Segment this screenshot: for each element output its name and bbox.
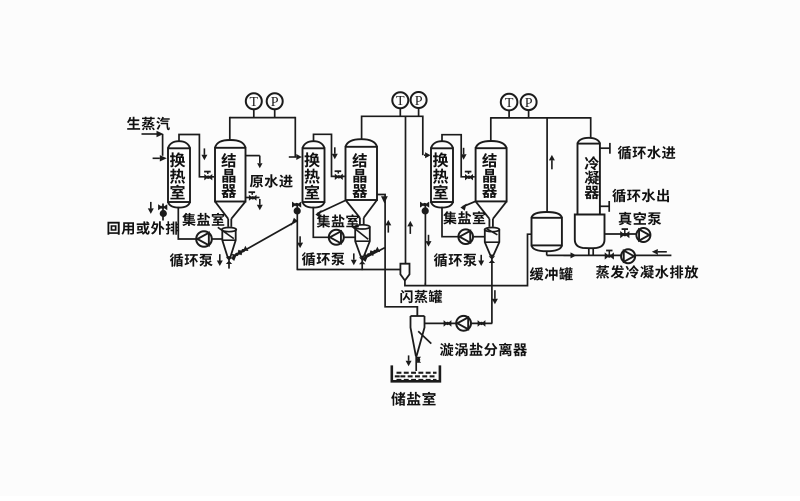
down arrow beside heater2 feed pipe <box>332 147 338 159</box>
label 蒸发冷凝水排放 <box>596 265 698 279</box>
label 循环水出 <box>612 189 669 203</box>
down arrow on pot3 drain lower <box>492 290 498 304</box>
label 集盐室 3 <box>443 211 485 224</box>
up arrow on crystallizer2 drain <box>385 220 391 233</box>
wire manifold2 to crystallizer2 top <box>361 116 363 141</box>
separator outlet to salt tank <box>415 356 417 371</box>
heater E3 换热室 <box>431 141 453 207</box>
crystallizer C1 结晶器 <box>215 140 246 227</box>
down arrow below crystallizer1 outlet <box>257 199 263 210</box>
gauge P3 stub <box>528 110 530 118</box>
gate valve on discharge line <box>605 251 614 260</box>
separator pump suction line <box>425 322 493 324</box>
label 缓冲罐 <box>530 267 573 280</box>
valve on crystallizer2 inlet <box>335 171 343 180</box>
label 闪蒸罐 <box>400 290 442 303</box>
wire manifold1 to crystallizer1 top <box>229 117 231 142</box>
gauge P1 stub <box>274 109 276 117</box>
gauge T1 stub <box>253 109 255 117</box>
pump3 discharge to salt pot3 <box>473 236 485 238</box>
heater3 top pipe <box>442 135 475 177</box>
svg-text:T: T <box>505 96 514 111</box>
wire manifold2 down to heater3 <box>422 116 424 156</box>
wire manifold1 down to heater2 <box>294 117 296 157</box>
valve b on transfer diagonal 1 <box>238 246 249 256</box>
crystallizer2 right outlet pipe <box>377 195 417 317</box>
circulation pump 循环泵 2 <box>329 230 344 245</box>
down arrow on heater3 blowdown <box>426 235 432 247</box>
ball valve on blowdown 回用或外排 <box>158 204 167 217</box>
label 循环泵 1 <box>170 253 213 267</box>
valve under salt pot1 <box>226 257 232 269</box>
gauge T3 stub <box>508 110 510 118</box>
salt pot E1 集盐室 <box>218 227 237 257</box>
svg-text:T: T <box>250 95 259 110</box>
crystallizer C2 结晶器 <box>346 139 378 226</box>
salt storage tank 储盐室 <box>392 365 440 381</box>
pump2 discharge to salt pot2 <box>344 236 355 238</box>
crystallizer1 side outlet <box>246 197 260 199</box>
gauge P2 stub <box>418 108 420 116</box>
effect2 bottom recirculation line <box>297 269 400 271</box>
down arrow into salt tank <box>406 355 412 366</box>
valve under salt pot3 <box>489 256 495 263</box>
valve on crystallizer1 side outlet <box>249 192 257 201</box>
temperature gauge T3 <box>501 94 518 111</box>
label 回用或外排 <box>108 221 180 235</box>
vacuum pump 真空泵 <box>636 228 650 242</box>
transfer diagonal effect1 to effect2 drain <box>231 218 297 261</box>
vapor manifold 3 header <box>491 117 591 119</box>
flash tank bottom line to buffer <box>405 234 532 285</box>
label 原水进 <box>250 174 293 187</box>
heater1 bottom drop to pump1 <box>178 207 196 239</box>
valve on crystallizer3 inlet <box>465 172 473 181</box>
ball valve on heater3 blowdown <box>420 202 429 215</box>
label 循环泵 2 <box>302 252 345 266</box>
valve at separator outlet <box>416 357 421 363</box>
condensate discharge pump <box>621 249 635 263</box>
svg-text:P: P <box>271 95 279 110</box>
ball valve on heater2 blowdown <box>292 202 301 215</box>
heater2 blowdown pipe <box>296 203 298 270</box>
vapor manifold 1 header <box>230 117 295 119</box>
left arrow above discharge line end <box>652 249 667 255</box>
separator feed drop <box>416 306 418 317</box>
up arrow on buffer tank feed <box>549 155 555 169</box>
pointer diagonal crystallizer3 cone <box>460 201 475 210</box>
label 集盐室 2 <box>317 214 359 227</box>
gate valve on vacuum line <box>620 229 629 238</box>
buffer tank 缓冲罐 <box>532 212 562 251</box>
valve left of separator pump <box>444 320 452 327</box>
wire manifold3 to condenser top <box>590 117 592 138</box>
wire manifold3 to crystallizer3 top <box>490 117 492 141</box>
heater1 top pipe <box>179 135 214 177</box>
down arrow left of pot1 drain <box>217 254 223 266</box>
vapor manifold 2 header <box>362 115 423 117</box>
down arrow beside heater3 feed pipe <box>461 148 467 160</box>
valve under salt pot2 <box>359 257 365 271</box>
vacuum line <box>605 233 637 235</box>
condenser bottom outlet <box>589 248 593 255</box>
heater E1 换热室 <box>168 141 190 207</box>
svg-text:T: T <box>396 94 405 109</box>
svg-text:P: P <box>415 94 423 109</box>
valve a on transfer diagonal 2 <box>363 250 374 260</box>
heater E2 换热室 <box>303 141 325 207</box>
steam arrow into heater3 <box>424 152 431 158</box>
gauge T2 stub <box>399 108 401 116</box>
heater2 bottom drop to pump2 <box>313 207 329 238</box>
junction stub on flash line <box>424 283 426 286</box>
cooling water outlet stub <box>600 201 609 212</box>
temperature gauge T1 <box>246 93 262 110</box>
label 储盐室 <box>391 392 435 406</box>
heater3 blowdown pipe <box>424 203 426 285</box>
steam arrow into heater1 <box>153 155 167 161</box>
salt pot E3 集盐室 <box>485 228 500 256</box>
circulation pump 循环泵 3 <box>458 229 473 244</box>
label 循环泵 3 <box>434 253 477 267</box>
circulation pump 循环泵 1 <box>196 231 212 247</box>
steam arrow into heater2 <box>289 154 302 160</box>
right arrow on discharge line <box>564 252 577 258</box>
label 漩涡盐分离器 <box>440 343 527 357</box>
label 循环水进 <box>618 146 676 160</box>
valve right of separator pump <box>478 320 486 327</box>
condenser lower shell <box>575 215 605 249</box>
salt pot3 drain to separator pump line <box>491 255 493 323</box>
steam inlet pipe upper <box>142 131 164 137</box>
valve a on transfer diagonal 1 <box>232 250 243 260</box>
flash tank 闪蒸罐 <box>400 264 409 281</box>
label 真空泵 <box>619 212 662 225</box>
cooling water inlet stub <box>600 143 610 154</box>
temperature gauge T2 <box>392 92 408 109</box>
valve b on transfer diagonal 2 <box>370 247 381 257</box>
valve on crystallizer1 inlet <box>204 172 212 181</box>
raw water inlet pipe 原水进 <box>246 156 263 169</box>
pointer diagonal crystallizer2 cone <box>315 201 345 218</box>
wire manifold3 down to buffer tank <box>546 117 548 212</box>
buffer tank bottom outlet <box>546 251 548 255</box>
label 生蒸汽 <box>127 117 170 131</box>
pump1 discharge to salt pot <box>212 238 223 240</box>
pressure gauge P2 <box>411 92 427 109</box>
condensate discharge line <box>547 254 672 256</box>
heater3 bottom drop to pump3 <box>442 207 458 237</box>
wire manifold2 down to flash tank <box>405 116 407 264</box>
svg-text:P: P <box>525 96 533 111</box>
condenser 冷凝器 upper shell <box>578 138 600 215</box>
vortex salt separator 漩涡盐分离器 <box>411 316 432 356</box>
up arrow on flash feed line <box>407 221 413 234</box>
down arrow beside blowdown <box>148 202 154 214</box>
down arrow beside heater1 feed pipe <box>201 148 207 160</box>
pressure gauge P1 <box>267 93 283 110</box>
transfer diagonal effect2 to crystallizer2 drain <box>362 248 385 262</box>
crystallizer C3 结晶器 <box>476 141 507 227</box>
steam inlet pipe drop <box>162 134 164 156</box>
heater2 top pipe <box>314 134 345 176</box>
pressure gauge P3 <box>521 94 537 111</box>
down arrow left of pot3 drain <box>478 255 484 266</box>
label 集盐室 1 <box>182 213 224 226</box>
down arrow left of pot2 drain <box>351 253 357 265</box>
down arrow on heater2 blowdown <box>297 236 303 248</box>
flow arrow at crystallizer2 outlet corner <box>381 196 388 203</box>
separator feed pump <box>456 316 471 331</box>
salt pot E2 集盐室 <box>352 225 370 257</box>
heater1 blowdown pipe <box>162 204 164 221</box>
